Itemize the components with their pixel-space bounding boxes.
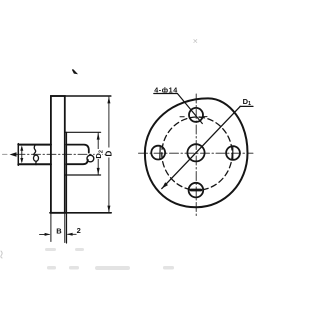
small pen mark upper left (73, 70, 77, 74)
svg-text:B: B (56, 227, 62, 236)
top bolt hole (189, 108, 203, 122)
circle view vertical centerline (195, 94, 197, 218)
dimension D vertical line (108, 97, 110, 212)
plate left edge extension (B dim) (50, 213, 52, 242)
right tube top line with rounded cap (67, 145, 89, 153)
right hole bolt-circle stroke (232, 147, 234, 159)
bolt circle (dashed) D1 (162, 117, 232, 190)
right bolt hole (226, 146, 240, 160)
dimension 2 line with arrow (68, 233, 77, 235)
bottom extension line (plate bottom, for D) (50, 212, 111, 214)
hub left end edge (17, 144, 19, 166)
tick left of hub arrow (3, 153, 8, 155)
center hole (187, 144, 204, 161)
dimension d line with arrows (inside hub) (21, 148, 23, 162)
boss bottom extension line (for D2) (65, 174, 101, 176)
bottom bolt hole (189, 183, 204, 198)
top extension line (plate top, for D) (51, 95, 111, 97)
small oval at tube end (87, 155, 94, 162)
left hole bolt-circle stroke (159, 147, 161, 159)
diagonal dimension line D1 (162, 106, 240, 188)
circle view horizontal centerline (139, 152, 254, 154)
raised face slab right edge (66, 132, 68, 243)
label D (rotated) (106, 148, 113, 158)
boss top extension line (for D2) (65, 131, 101, 133)
S-break squiggle in hub (34, 145, 36, 154)
D1 label underline (240, 105, 253, 107)
dimension D2 vertical line (97, 133, 99, 175)
wire: side-view horizontal centerline (16, 153, 112, 155)
bottom hole thick bar (191, 189, 201, 192)
label D2 (rotated) (95, 149, 103, 159)
hub tube bottom line (18, 163, 51, 165)
faint squiggle left edge (1, 251, 2, 258)
plate right edge extension (64, 213, 66, 243)
right tube bottom line with rounded cap (67, 160, 88, 165)
svg-text:2: 2 (77, 226, 81, 235)
leader arrow at hub left end (10, 152, 17, 157)
left bolt hole (151, 146, 165, 160)
top hole centerline ticks (180, 116, 184, 118)
faint mark top middle (194, 40, 197, 43)
callout leader line (177, 94, 202, 124)
svg-text:D: D (105, 151, 114, 157)
faint smudges bottom (45, 248, 174, 270)
dimension B line with arrow (40, 233, 50, 235)
callout underline (154, 93, 178, 95)
outer circle D (145, 98, 248, 207)
hub tube (left) top line (18, 144, 51, 146)
svg-text:D1: D1 (243, 97, 251, 107)
flange plate (side view) (51, 96, 65, 213)
